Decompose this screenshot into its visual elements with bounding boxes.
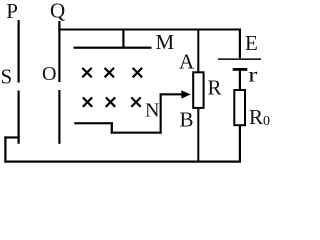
rheostat R box (193, 72, 203, 108)
magnetic field cross row2 c3 (131, 97, 140, 106)
plate P upper segment (18, 20, 20, 83)
magnetic field cross row2 c2 (106, 97, 115, 106)
resistor R0 box (234, 90, 245, 125)
wire: wiper lower run (111, 132, 162, 134)
magnetic field cross row1 c1 (82, 68, 91, 77)
wire: plate N step down (111, 122, 113, 134)
svg-text:M: M (156, 30, 175, 54)
magnetic field cross row2 c1 (83, 97, 92, 106)
wire: rheostat R top lead (197, 30, 199, 72)
rheostat wiper arrow shaft (160, 93, 183, 95)
wire: rheostat R bottom lead (197, 109, 199, 162)
wire: battery to R0 (239, 71, 241, 91)
plate Q upper segment (58, 21, 60, 82)
plate M (74, 47, 152, 49)
wire: R0 bottom lead (239, 126, 241, 162)
plate Q lower segment (58, 90, 60, 144)
wire: plate P bottom jog horizontal (4, 136, 19, 138)
wire: top bus from plate Q to battery (58, 29, 241, 31)
svg-text:O: O (42, 63, 56, 85)
wire: bottom bus (5, 161, 242, 163)
svg-text:P: P (6, 0, 18, 23)
magnetic field cross row1 c3 (133, 68, 142, 77)
plate N (74, 122, 113, 124)
svg-text:B: B (180, 108, 194, 132)
svg-text:r: r (248, 63, 257, 86)
svg-text:Q: Q (50, 0, 65, 23)
svg-text:R: R (208, 76, 222, 100)
wire: battery E top lead (239, 29, 241, 58)
battery E short plate (233, 68, 248, 71)
rheostat wiper arrowhead (181, 90, 191, 98)
svg-text:A: A (179, 50, 195, 74)
svg-text:E: E (245, 31, 258, 55)
battery E long plate (218, 58, 261, 60)
plate P lower segment (18, 91, 20, 144)
svg-text:S: S (1, 65, 13, 89)
wire: wiper vertical riser (160, 93, 162, 133)
wire: plate M stub (122, 30, 124, 48)
magnetic field cross row1 c2 (105, 68, 114, 77)
wire: plate P bottom jog vertical (4, 136, 6, 162)
svg-text:N: N (145, 100, 159, 122)
